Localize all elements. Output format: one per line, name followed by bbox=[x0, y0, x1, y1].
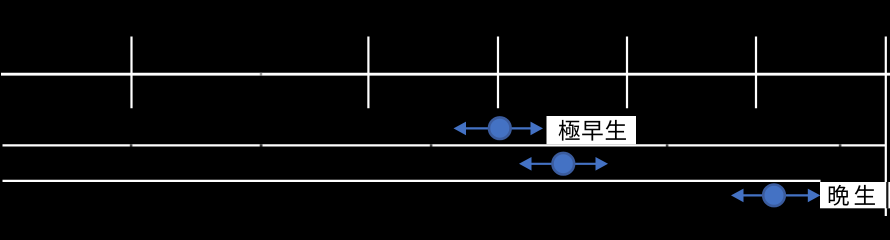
marker circle 3 bbox=[763, 185, 785, 207]
notch on row separator line 1 at x=667 bbox=[666, 144, 669, 146]
notch on row separator line 1 at x=840 bbox=[839, 144, 842, 146]
range arrow 1 left head bbox=[454, 122, 467, 136]
notch on axis line bbox=[260, 73, 262, 76]
notch on row separator line 1 at x=131 bbox=[130, 144, 133, 146]
marker circle 2 bbox=[553, 153, 575, 175]
label box 晩生 bbox=[820, 182, 890, 208]
tick 2 bbox=[367, 37, 369, 109]
notch on row separator line 1 at x=261 bbox=[260, 144, 263, 146]
label text 晩生 bbox=[829, 185, 875, 206]
label box 極早生 bbox=[547, 116, 637, 144]
marker circle 1 bbox=[489, 117, 511, 139]
range arrow 2 right head bbox=[596, 157, 609, 171]
tick 4 bbox=[626, 37, 628, 109]
range arrow 2 left head bbox=[519, 157, 532, 171]
tick 1 bbox=[130, 37, 132, 109]
range arrow 3 right head bbox=[808, 189, 821, 203]
axis line (month scale) bbox=[1, 73, 890, 76]
right border vertical line bbox=[885, 37, 887, 217]
range arrow 1 shaft bbox=[456, 127, 541, 129]
tick 5 bbox=[755, 37, 757, 109]
range arrow 2 shaft bbox=[522, 163, 606, 165]
row separator line 2 bbox=[3, 180, 821, 182]
range arrow 3 left head bbox=[731, 189, 744, 203]
row separator line 1 bbox=[3, 144, 886, 146]
label text 極早生 bbox=[559, 120, 626, 141]
range arrow 3 shaft bbox=[734, 194, 819, 196]
tick 3 bbox=[497, 37, 499, 109]
range arrow 1 right head bbox=[531, 122, 544, 136]
dark chart border over label box bbox=[886, 182, 888, 208]
notch on row separator line 1 at x=431 bbox=[430, 144, 433, 146]
